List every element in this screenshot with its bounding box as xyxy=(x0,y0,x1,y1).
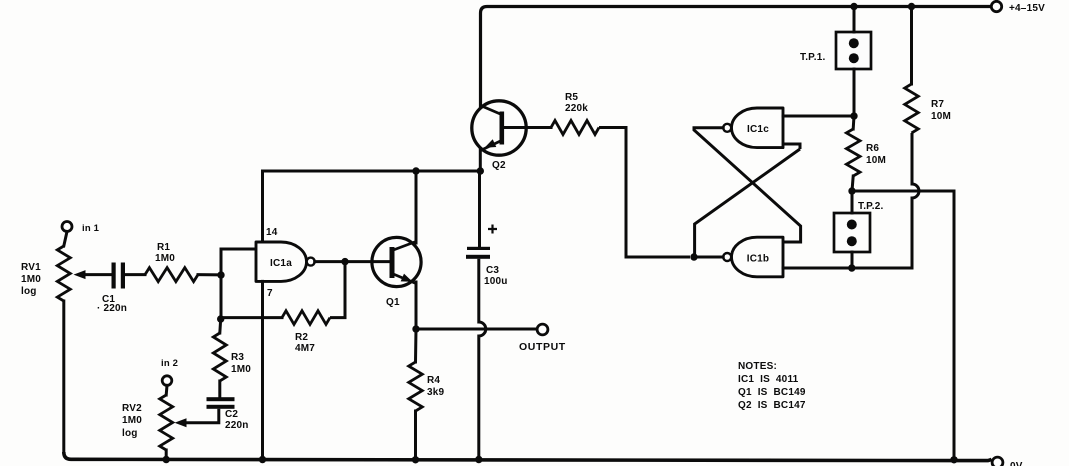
svg-text:4M7: 4M7 xyxy=(295,343,315,354)
wire R3 to C2 xyxy=(218,381,221,398)
nand gate IC1a bubble xyxy=(307,258,315,266)
wire R5 to IC1b output node xyxy=(599,128,690,258)
testpoint T.P.1 contact 2 xyxy=(849,53,859,63)
wire R4 bottom xyxy=(414,411,417,460)
wire IC1c bottom input xyxy=(783,144,800,149)
svg-text:R1: R1 xyxy=(157,242,170,253)
capacitor C2 top plate xyxy=(207,397,235,401)
wire in2 down xyxy=(165,385,169,395)
junction R4 rail xyxy=(412,456,419,463)
wire C2 to RV2 wiper xyxy=(182,409,219,423)
svg-text:220n: 220n xyxy=(225,420,249,431)
nand gate IC1c body xyxy=(732,108,784,148)
transistor Q1 emitter lead xyxy=(392,274,416,284)
wire R7 bottom column with hop xyxy=(912,133,919,268)
wire IC1c output left xyxy=(694,126,723,129)
junction IC1b output node xyxy=(690,253,697,260)
svg-text:R3: R3 xyxy=(231,352,244,363)
wire RV1 wiper to C1 xyxy=(85,273,112,276)
svg-text:R6: R6 xyxy=(866,143,879,154)
wire Q1 collector up xyxy=(415,171,418,243)
junction R3 node xyxy=(217,315,224,322)
junction R1 node xyxy=(217,271,224,278)
svg-text:C2: C2 xyxy=(225,409,238,420)
transistor Q1 collector lead xyxy=(392,242,416,251)
svg-text:R4: R4 xyxy=(427,375,440,386)
junction right column rail xyxy=(950,456,957,463)
junction R6 bottom node xyxy=(848,187,855,194)
testpoint T.P.1 lead bottom xyxy=(853,69,856,116)
wire RV2 bottom xyxy=(165,450,168,459)
svg-text:NOTES:: NOTES: xyxy=(738,361,777,372)
wire output line xyxy=(416,328,538,331)
junction RV2 rail xyxy=(163,456,170,463)
potentiometer RV2 xyxy=(160,395,173,450)
resistor R7 xyxy=(905,84,919,133)
nand gate IC1b bubble xyxy=(723,253,731,261)
wire C1 to R1 xyxy=(125,273,145,276)
svg-text:T.P.1.: T.P.1. xyxy=(800,52,825,63)
transistor Q2 base bar xyxy=(500,112,505,145)
transistor Q2 emitter arrow xyxy=(485,139,497,148)
svg-text:in 1: in 1 xyxy=(82,223,100,234)
wire emitter node to C3 xyxy=(478,171,481,249)
transistor Q2 emitter lead xyxy=(481,141,502,151)
terminal in2 xyxy=(162,376,172,386)
resistor R3 xyxy=(213,333,226,381)
svg-text:7: 7 xyxy=(267,288,273,299)
svg-text:1M0: 1M0 xyxy=(122,415,142,426)
testpoint T.P.1 box xyxy=(836,32,871,69)
svg-text:OUTPUT: OUTPUT xyxy=(519,341,566,353)
transistor Q1 emitter arrow xyxy=(401,274,413,282)
wire IC1b output left xyxy=(694,256,723,259)
svg-text:· 220n: · 220n xyxy=(97,303,127,314)
wire in1 down xyxy=(64,232,67,247)
wire 0V bottom rail xyxy=(64,452,992,461)
svg-text:1M0: 1M0 xyxy=(155,253,175,264)
terminal in1 xyxy=(62,222,72,232)
svg-text:IC1a: IC1a xyxy=(270,258,292,269)
svg-text:Q2 IS BC147: Q2 IS BC147 xyxy=(738,400,806,411)
resistor R4 xyxy=(409,362,423,411)
wire IC1a pin7 down xyxy=(261,281,264,459)
junction T.P.2 bottom node xyxy=(848,264,855,271)
resistor R6 xyxy=(846,129,860,176)
svg-text:R5: R5 xyxy=(565,92,578,103)
junction pin7 rail xyxy=(259,456,266,463)
svg-text:R2: R2 xyxy=(295,332,308,343)
potentiometer RV1 xyxy=(57,246,70,301)
svg-text:IC1 IS 4011: IC1 IS 4011 xyxy=(738,374,799,385)
capacitor C3 bottom plate xyxy=(466,255,490,259)
nand gate IC1b body xyxy=(732,237,784,277)
wire IC1a output xyxy=(315,260,390,263)
wire R3 top xyxy=(218,319,222,333)
junction top rail / T.P.1 xyxy=(850,3,857,10)
wire +V top rail xyxy=(481,7,992,109)
transistor Q2 circle xyxy=(472,101,526,155)
wire Q1 emitter down xyxy=(415,282,418,329)
wire IC1a pin14 up xyxy=(261,171,264,242)
svg-text:C3: C3 xyxy=(486,265,499,276)
terminal +4-15V xyxy=(991,1,1001,11)
svg-text:Q1 IS BC149: Q1 IS BC149 xyxy=(738,387,806,398)
capacitor C3 plus sign xyxy=(488,225,497,234)
svg-text:in 2: in 2 xyxy=(161,358,178,369)
svg-text:14: 14 xyxy=(266,227,278,238)
arrow RV1 wiper xyxy=(74,270,86,279)
wire IC1b bottom input xyxy=(783,267,912,270)
wire IC1a input xyxy=(221,249,256,319)
wire C3 down with hop over output xyxy=(479,259,486,460)
svg-text:RV2: RV2 xyxy=(122,403,142,414)
svg-text:1M0: 1M0 xyxy=(21,274,41,285)
svg-text:1M0: 1M0 xyxy=(231,364,251,375)
testpoint T.P.1 contact 1 xyxy=(849,38,859,48)
svg-text:RV1: RV1 xyxy=(21,262,41,273)
wire R6 top xyxy=(852,116,856,129)
svg-text:+4–15V: +4–15V xyxy=(1009,3,1045,14)
capacitor C1 left plate xyxy=(112,263,116,289)
svg-text:IC1c: IC1c xyxy=(747,124,769,135)
svg-text:T.P.2.: T.P.2. xyxy=(858,201,883,212)
wire cross coupling A xyxy=(694,128,801,242)
wire R6 bottom xyxy=(852,176,853,191)
junction output node xyxy=(412,325,419,332)
arrow RV2 wiper xyxy=(175,418,187,427)
terminal OUTPUT xyxy=(537,324,548,335)
wire cross coupling B xyxy=(695,149,800,257)
svg-text:10M: 10M xyxy=(931,111,951,122)
wire R2 right up xyxy=(330,262,345,318)
wire R6 node to right column xyxy=(852,191,954,460)
resistor R5 xyxy=(551,121,599,135)
capacitor C3 top plate xyxy=(467,247,490,250)
testpoint T.P.2 contact 1 xyxy=(847,220,857,230)
junction top rail / R7 xyxy=(908,3,915,10)
wire Q2 emitter down xyxy=(479,149,482,173)
transistor Q1 circle xyxy=(372,237,421,286)
svg-text:Q1: Q1 xyxy=(386,297,400,308)
svg-text:log: log xyxy=(21,286,37,297)
wire R4 top xyxy=(414,329,418,362)
svg-text:Q2: Q2 xyxy=(492,160,506,171)
svg-text:IC1b: IC1b xyxy=(747,254,769,265)
testpoint T.P.2 box xyxy=(834,213,870,252)
svg-text:10M: 10M xyxy=(866,155,886,166)
wire R1 right xyxy=(198,273,221,276)
wire IC1c top input xyxy=(783,115,854,118)
svg-text:3k9: 3k9 xyxy=(427,387,445,398)
junction Q2 emitter node xyxy=(477,167,484,174)
wire Q2 base to R5 xyxy=(504,126,551,129)
svg-text:log: log xyxy=(122,428,138,439)
junction R2 top node xyxy=(341,258,348,265)
svg-text:R7: R7 xyxy=(931,99,944,110)
wire RV1 down to rail xyxy=(62,301,65,452)
wire R7 top xyxy=(910,7,913,85)
testpoint T.P.1 lead top xyxy=(853,7,856,33)
wire node line y171 xyxy=(263,170,481,173)
capacitor C2 bottom plate xyxy=(207,405,235,409)
wire R2 left xyxy=(221,316,282,319)
nand gate IC1a body xyxy=(256,242,307,281)
svg-text:0V: 0V xyxy=(1010,461,1023,466)
svg-text:220k: 220k xyxy=(565,103,588,114)
capacitor C1 right plate xyxy=(121,263,125,289)
nand gate IC1c bubble xyxy=(723,124,731,132)
testpoint T.P.2 contact 2 xyxy=(847,236,857,246)
testpoint T.P.2 lead top xyxy=(851,191,854,213)
junction Q1 collector node xyxy=(412,167,419,174)
junction IC1c input / R6 xyxy=(850,112,857,119)
svg-text:100u: 100u xyxy=(484,276,508,287)
resistor R1 xyxy=(145,268,198,282)
junction C3 bottom rail xyxy=(475,456,482,463)
transistor Q2 collector lead xyxy=(481,106,502,115)
resistor R2 xyxy=(282,311,330,325)
testpoint T.P.2 lead bottom xyxy=(851,252,854,268)
transistor Q1 base bar xyxy=(390,247,395,278)
terminal 0V xyxy=(992,457,1003,466)
